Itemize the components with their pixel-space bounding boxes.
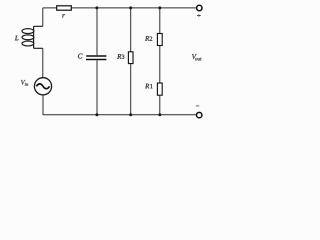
minus sign xyxy=(196,105,199,107)
junction dot top rail at C branch xyxy=(95,6,98,9)
resistor R3 box xyxy=(128,52,133,64)
junction dot bottom rail at C branch xyxy=(95,113,98,116)
inductor L coil xyxy=(22,26,43,48)
wire left branch from top rail down to inductor xyxy=(42,8,44,26)
wire bottom rail xyxy=(43,114,196,116)
wire R1 branch lower xyxy=(159,95,161,114)
wire R3 branch upper xyxy=(130,8,132,52)
source sine wave xyxy=(36,84,49,89)
junction dot bottom rail at R1 branch xyxy=(158,113,161,116)
wire source to bottom rail xyxy=(42,95,44,115)
wire inductor to source xyxy=(42,48,44,78)
resistor R1 box xyxy=(157,83,162,95)
wire R3 branch lower xyxy=(130,64,132,115)
label R3 xyxy=(117,54,124,59)
label Vin xyxy=(21,80,28,86)
terminal circle bottom right xyxy=(197,112,202,117)
resistor R2 box xyxy=(157,34,162,46)
junction dot bottom rail at R3 branch xyxy=(129,113,132,116)
capacitor C plates xyxy=(86,56,106,60)
label R2 xyxy=(145,36,152,41)
junction dot top rail at R2 branch xyxy=(158,6,161,9)
wire R2R1 branch upper xyxy=(159,8,161,33)
label C xyxy=(78,54,82,59)
label Vout xyxy=(192,54,202,60)
label r xyxy=(62,14,64,17)
wire capacitor branch lower xyxy=(96,60,98,114)
resistor r box xyxy=(57,6,72,10)
junction dot top rail at R3 branch xyxy=(129,6,132,9)
wire capacitor branch upper xyxy=(96,8,98,55)
wire R2 to R1 xyxy=(159,46,161,83)
wire top rail xyxy=(43,7,196,9)
source Vin circle xyxy=(34,78,51,95)
label R1 xyxy=(145,84,152,88)
plus sign xyxy=(197,15,201,17)
terminal circle top right xyxy=(197,5,202,10)
label L xyxy=(15,36,19,40)
